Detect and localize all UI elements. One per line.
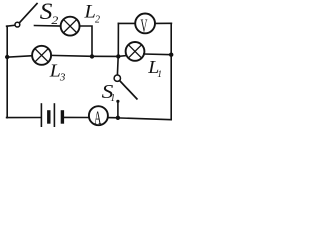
wire bottom row right bbox=[118, 118, 171, 120]
wire L1 right to right edge bbox=[144, 53, 172, 56]
wire top row left segment bbox=[7, 25, 16, 26]
wire bottom row battery to ammeter bbox=[64, 116, 89, 118]
switch S2 pivot circle bbox=[15, 22, 20, 27]
wire top row to corner bbox=[80, 26, 92, 56]
wire bottom row ammeter to junction bbox=[108, 117, 118, 119]
junction dot L2 branch bbox=[90, 54, 94, 58]
wire V branch top right bbox=[155, 22, 171, 24]
wire top row right of switch bbox=[35, 25, 62, 28]
label L3 bbox=[49, 61, 66, 83]
switch S1 pivot circle bbox=[114, 75, 120, 81]
svg-text:1: 1 bbox=[110, 93, 115, 104]
ammeter A circle bbox=[89, 106, 108, 125]
switch S1 wire from node bbox=[116, 56, 119, 75]
lamp L3 bbox=[32, 46, 51, 65]
svg-text:2: 2 bbox=[95, 14, 100, 25]
switch S1 blade bbox=[120, 81, 137, 99]
voltmeter V circle bbox=[135, 14, 155, 34]
svg-text:L: L bbox=[83, 2, 95, 22]
svg-text:A: A bbox=[94, 108, 101, 127]
wire V branch top left bbox=[118, 22, 135, 24]
wire right edge vertical bbox=[170, 23, 172, 119]
label L2 bbox=[83, 2, 100, 25]
wire middle row to L1 bbox=[118, 55, 127, 58]
label S1 bbox=[102, 79, 116, 104]
label L1 bbox=[147, 58, 162, 80]
label S2 bbox=[40, 0, 59, 27]
wire middle row center bbox=[51, 55, 118, 56]
junction dot bottom bbox=[116, 116, 120, 120]
svg-text:3: 3 bbox=[59, 72, 66, 84]
lamp L1 bbox=[126, 42, 145, 61]
svg-text:V: V bbox=[140, 17, 147, 37]
wire V branch vertical bbox=[117, 23, 119, 56]
junction dot left bbox=[5, 55, 9, 59]
wire middle row left bbox=[7, 56, 32, 58]
switch S1 fixed terminal dot bbox=[116, 100, 119, 103]
svg-text:1: 1 bbox=[157, 70, 162, 80]
svg-text:2: 2 bbox=[51, 13, 58, 27]
wire bottom row left bbox=[7, 117, 41, 119]
junction dot right edge bbox=[169, 53, 173, 57]
switch S1 fixed terminal stub bbox=[117, 101, 119, 118]
wire left vertical bbox=[6, 26, 8, 118]
battery cell 2 short plate bbox=[61, 112, 64, 122]
battery cell 1 long plate bbox=[40, 104, 42, 127]
lamp L2 bbox=[61, 17, 80, 36]
junction dot node S1/V bbox=[116, 54, 120, 58]
battery cell 2 long plate bbox=[53, 104, 55, 127]
battery cell 1 short plate bbox=[47, 112, 50, 122]
switch S2 blade bbox=[20, 4, 37, 23]
